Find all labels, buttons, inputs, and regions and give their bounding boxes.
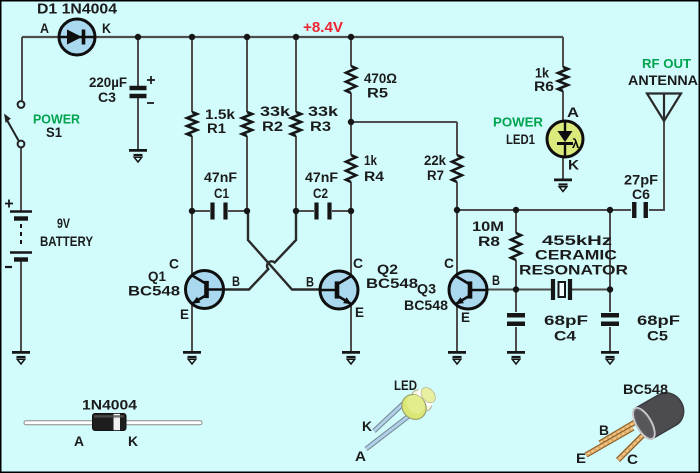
pictorial BC548 lead E: [586, 428, 633, 455]
svg-text:BC548: BC548: [128, 283, 180, 299]
wire Q1 emitter to ground: [191, 303, 193, 353]
node C6/C5 branch: [607, 207, 613, 213]
svg-text:BC548: BC548: [366, 275, 418, 291]
ground C4: [507, 352, 525, 364]
pictorial BC548 lead B: [600, 421, 637, 443]
wire C4 to ground: [515, 327, 517, 353]
svg-text:R4: R4: [364, 169, 385, 184]
svg-text:9V: 9V: [57, 215, 71, 231]
resistor R4 1k: [346, 155, 356, 182]
pictorial LED anode lead A: [366, 412, 414, 449]
wire resonator to C5 branch: [572, 289, 610, 291]
svg-text:68pF: 68pF: [637, 312, 681, 328]
svg-text:R8: R8: [478, 234, 501, 249]
C3 polarity marks: [147, 76, 155, 103]
svg-text:C: C: [627, 452, 638, 467]
svg-text:+8.4V: +8.4V: [303, 20, 343, 36]
svg-text:C1: C1: [214, 186, 229, 201]
wire node B horizontal to C6: [457, 209, 631, 211]
svg-text:LED1: LED1: [506, 132, 535, 147]
svg-text:R5: R5: [367, 86, 389, 101]
node C2/R3: [293, 208, 299, 214]
pictorial LED body: [397, 381, 441, 424]
wire Q3 collector: [456, 210, 458, 277]
svg-text:E: E: [355, 305, 364, 320]
svg-text:BC548: BC548: [623, 381, 668, 397]
node C1/Q1 collector: [189, 208, 195, 214]
wire node B to R8: [515, 210, 517, 233]
node rail/R1: [189, 34, 195, 40]
capacitor C6 27pF: [634, 202, 646, 218]
resistor R5 470R: [346, 66, 356, 93]
ground Q1 emitter: [183, 352, 201, 364]
ground Q2 emitter: [342, 352, 360, 364]
ceramic resonator 455kHz X1: [553, 279, 570, 300]
svg-text:1.5k: 1.5k: [205, 107, 236, 122]
pictorial diode 1N4004 right lead: [125, 421, 202, 425]
pictorial LED cathode lead K: [374, 403, 404, 431]
node B R7/Q3 collector: [454, 207, 460, 213]
ground C3: [129, 150, 147, 162]
transistor Q3 BC548: [449, 271, 487, 309]
svg-text:R6: R6: [534, 79, 555, 94]
svg-text:220µF: 220µF: [89, 75, 127, 90]
svg-text:K: K: [362, 419, 372, 434]
antenna symbol: [647, 94, 681, 122]
svg-text:A: A: [40, 21, 49, 36]
svg-text:BC548: BC548: [404, 297, 448, 313]
wire R7 down to node B: [456, 182, 458, 210]
resistor R8 10M: [511, 233, 521, 260]
pictorial diode 1N4004 left lead: [24, 421, 94, 425]
svg-text:ANTENNA: ANTENNA: [628, 73, 698, 88]
wire R8 to Q3 base line: [515, 260, 517, 290]
svg-text:λ: λ: [572, 136, 580, 151]
svg-text:470Ω: 470Ω: [364, 71, 397, 86]
node rail/C3: [135, 34, 141, 40]
svg-text:22k: 22k: [424, 153, 446, 168]
svg-text:RF OUT: RF OUT: [642, 57, 691, 71]
node C2/Q2 collector: [348, 208, 354, 214]
wire rail to R3: [295, 37, 297, 112]
wire R3 to node: [295, 136, 297, 211]
wire resonator node to C5: [609, 290, 611, 313]
svg-text:K: K: [128, 434, 138, 449]
ground Q3 emitter: [448, 352, 466, 364]
wire C1 left: [192, 210, 210, 212]
LED1 POWER indicator: [547, 121, 583, 157]
svg-text:POWER: POWER: [493, 116, 543, 130]
svg-text:K: K: [568, 158, 579, 173]
svg-text:1N4004: 1N4004: [82, 397, 137, 413]
svg-text:33k: 33k: [308, 104, 339, 119]
svg-text:B: B: [599, 423, 609, 438]
wire R2 to node: [246, 136, 248, 211]
wire C3 to ground: [137, 98, 139, 151]
wire Q1 base to R3/C2 node (with hop over crossing): [224, 211, 297, 290]
capacitor C3 220uF: [130, 88, 147, 96]
svg-text:68pF: 68pF: [544, 312, 589, 328]
node R8 top: [513, 207, 519, 213]
svg-text:R7: R7: [427, 168, 444, 183]
svg-text:LED: LED: [394, 378, 417, 393]
pictorial diode 1N4004 body with cathode band: [93, 414, 127, 431]
svg-text:33k: 33k: [260, 104, 291, 119]
svg-text:D1 1N4004: D1 1N4004: [37, 1, 118, 18]
wire R4 to Q2 collector node: [350, 182, 352, 211]
wire C6 node down to resonator node: [609, 210, 611, 290]
svg-text:K: K: [102, 21, 111, 36]
ground battery: [12, 352, 30, 364]
svg-text:47nF: 47nF: [204, 170, 237, 185]
node rail/R2: [244, 34, 250, 40]
ground C5: [601, 352, 619, 364]
wire rail to R5: [350, 37, 352, 66]
battery 9V: [5, 200, 32, 268]
wire Q3 base to resonator: [487, 289, 551, 291]
svg-text:BATTERY: BATTERY: [40, 233, 94, 249]
svg-text:C: C: [353, 256, 363, 271]
node resonator/C5: [607, 286, 613, 292]
svg-text:1k: 1k: [364, 153, 377, 168]
transistor Q2 BC548: [320, 271, 358, 309]
ground LED1: [554, 180, 572, 192]
wire C1 right: [228, 210, 247, 212]
wire Q3 emitter to ground: [456, 303, 458, 353]
resistor R6 1k: [558, 67, 568, 91]
svg-text:A: A: [355, 449, 366, 464]
svg-text:27pF: 27pF: [624, 173, 658, 188]
svg-text:Q3: Q3: [417, 281, 436, 297]
svg-text:A: A: [74, 434, 84, 449]
svg-text:RESONATOR: RESONATOR: [519, 262, 628, 278]
svg-text:R3: R3: [310, 119, 332, 134]
svg-text:E: E: [576, 451, 586, 466]
svg-text:C2: C2: [313, 186, 328, 201]
wire rail to R2: [246, 37, 248, 112]
node A R5/R4/R7: [348, 119, 354, 125]
wire Q2 collector: [350, 211, 352, 277]
switch S1: [4, 101, 24, 147]
svg-text:E: E: [180, 307, 189, 322]
svg-text:C3: C3: [98, 90, 117, 105]
wire node A to R7 horizontal: [351, 121, 457, 123]
wire R6 to LED1 anode: [562, 91, 564, 121]
node rail/R3: [293, 34, 299, 40]
svg-text:A: A: [567, 105, 579, 120]
node C1/R2: [244, 208, 250, 214]
resistor R3 33k: [291, 112, 301, 136]
wire Q2 emitter to ground: [350, 303, 352, 353]
wire rail end to R6: [562, 37, 564, 67]
wire switch S1 to battery +: [20, 148, 22, 212]
capacitor C1 47nF: [213, 203, 226, 220]
resistor R1 1.5k: [187, 112, 197, 136]
diode D1 1N4004: [59, 19, 95, 55]
wire +8.4V top rail: [22, 36, 563, 38]
wire LED1 cathode to ground: [562, 157, 564, 180]
wire R1 to C1 node: [191, 136, 193, 211]
svg-text:C: C: [169, 257, 179, 272]
pictorial BC548 body TO-92: [629, 387, 690, 443]
wire rail to C3: [137, 37, 139, 87]
svg-text:C4: C4: [554, 329, 577, 344]
svg-text:E: E: [461, 310, 470, 325]
svg-text:B: B: [492, 273, 500, 288]
wire node A to R4: [350, 122, 352, 155]
wire C6 to antenna: [649, 121, 664, 210]
capacitor C5 68pF: [601, 315, 619, 324]
node R8/C4/Q3 base: [513, 286, 519, 292]
svg-text:R2: R2: [262, 119, 283, 134]
svg-text:10M: 10M: [472, 219, 504, 234]
wire C5 to ground: [609, 327, 611, 353]
svg-text:R1: R1: [207, 121, 227, 136]
svg-text:B: B: [306, 275, 314, 290]
wire Q2 base to R2/C1 node: [248, 211, 320, 290]
svg-text:C: C: [444, 256, 454, 271]
capacitor C4 68pF: [507, 315, 525, 324]
wire C2 right: [332, 210, 351, 212]
svg-text:47nF: 47nF: [305, 170, 338, 185]
wire C4 top: [515, 290, 517, 313]
resistor R2 33k: [242, 112, 252, 136]
wire R5 to node A: [350, 93, 352, 122]
wire to R7: [456, 122, 458, 155]
wire battery - to ground: [20, 261, 22, 353]
wire Q1 collector: [191, 211, 193, 277]
wire rail corner to switch S1: [21, 37, 23, 101]
svg-text:C5: C5: [647, 329, 669, 344]
svg-text:C6: C6: [632, 187, 651, 202]
svg-text:B: B: [232, 274, 240, 289]
pictorial BC548 lead C: [618, 432, 646, 460]
transistor Q1 BC548: [186, 271, 224, 309]
resistor R7 22k: [452, 155, 462, 182]
svg-text:S1: S1: [46, 125, 62, 140]
capacitor C2 47nF: [317, 203, 330, 220]
wire rail to R1: [191, 37, 193, 112]
svg-text:CERAMIC: CERAMIC: [535, 247, 617, 263]
wire C2 left: [296, 210, 314, 212]
node rail/R5: [348, 34, 354, 40]
